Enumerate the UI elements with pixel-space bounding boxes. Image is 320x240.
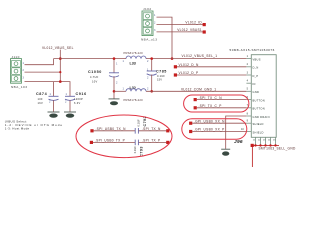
svg-text:ID: ID [253, 82, 256, 86]
net SPI_TX_C_N [194, 96, 247, 101]
J96 shield pin numbers [253, 140, 276, 142]
svg-text:D_P: D_P [253, 74, 259, 78]
svg-text:C916: C916 [76, 92, 87, 96]
J96 pin names [253, 57, 270, 134]
svg-text:SHIELD: SHIELD [253, 130, 264, 134]
wire VBUS rail W1 [54, 58, 247, 60]
J96 shield stubs bottom [256, 137, 276, 145]
wire GND rail W2 [114, 90, 246, 92]
svg-text:1-3: Host Mode: 1-3: Host Mode [5, 127, 30, 131]
wire GND_DRAIN row8 [226, 116, 247, 149]
svg-text:.SPI_USB0_TX_N: .SPI_USB0_TX_N [96, 127, 127, 131]
svg-text:VL012_VBUS_SEL: VL012_VBUS_SEL [42, 46, 74, 50]
capacitor C1050 [88, 59, 119, 99]
svg-text:VL012_D_P: VL012_D_P [179, 71, 199, 75]
inductor L33 [123, 51, 150, 66]
svg-text:C793: C793 [140, 146, 144, 156]
ground C916 [64, 112, 76, 118]
svg-text:.SPI_TX_C_P: .SPI_TX_C_P [199, 104, 222, 108]
svg-text:50M8-AX15-SMT1063076: 50M8-AX15-SMT1063076 [230, 48, 275, 52]
svg-text:BUTTON: BUTTON [253, 98, 265, 102]
svg-text:SMT1063_SELL_GND: SMT1063_SELL_GND [259, 146, 296, 150]
net VL012_D_N [174, 63, 247, 68]
ground GND_DRAIN [221, 149, 230, 156]
svg-text:10V: 10V [92, 79, 98, 83]
svg-text:J110: J110 [12, 55, 20, 59]
svg-text:16V: 16V [38, 101, 44, 105]
junction C785 top [150, 57, 153, 60]
svg-text:.GPI_USB0_XX_P: .GPI_USB0_XX_P [194, 128, 225, 132]
net SPI_TX_C_P [194, 104, 247, 109]
svg-text:.SPI_TX_C_N: .SPI_TX_C_N [199, 96, 223, 100]
wire J102 pin2 net VL012_ID [157, 21, 206, 27]
svg-text:15V: 15V [157, 78, 162, 82]
net VL012_D_P [174, 71, 247, 76]
svg-text:GND: GND [253, 90, 260, 94]
svg-text:VL012_VBUS1: VL012_VBUS1 [177, 28, 202, 32]
wire stub C874 [53, 82, 55, 97]
capacitor C874 [36, 92, 59, 112]
junction J102 pin1 on VBUS rail [171, 57, 174, 60]
svg-text:VL012_ID: VL012_ID [185, 21, 202, 25]
ground C874 [48, 112, 60, 118]
svg-text:VL012_D_N: VL012_D_N [179, 63, 199, 67]
junction pin2/V1 [59, 71, 61, 73]
svg-text:0.1UF: 0.1UF [137, 119, 141, 126]
capacitor C792 [135, 116, 147, 134]
svg-text:D_N: D_N [253, 66, 259, 70]
net GPI_USB0_XX_N [189, 119, 246, 124]
note VBUS select text [5, 120, 63, 131]
svg-text:J96: J96 [234, 139, 243, 145]
svg-text:J102: J102 [143, 7, 152, 11]
connector J96 USB receptacle [230, 48, 277, 145]
annotation ellipse USB0_XX pair [182, 119, 247, 139]
svg-text:C785: C785 [156, 70, 167, 74]
connector J110 [11, 55, 28, 89]
capacitor C916 [65, 92, 87, 112]
svg-text:10F: 10F [38, 97, 43, 101]
wire J102 pin1 to VBUS rail [157, 17, 173, 59]
svg-text:C1050: C1050 [88, 70, 102, 74]
svg-text:VBUS: VBUS [253, 57, 261, 61]
J96 pin numbers [241, 55, 249, 131]
wire J110 pin2 [25, 71, 61, 73]
J96 pin stubs left [246, 59, 251, 132]
svg-text:0.1UF: 0.1UF [133, 146, 137, 153]
svg-text:BUTTON: BUTTON [253, 107, 265, 111]
connector J102 [141, 7, 157, 42]
svg-text:.SPI_TX_N: .SPI_TX_N [142, 127, 161, 131]
svg-text:PRS#178-220: PRS#178-220 [124, 98, 144, 102]
annotation ellipse TX pair [76, 115, 172, 158]
junction VBUS_SEL on rail [59, 57, 62, 60]
svg-text:GND DRAIN: GND DRAIN [253, 115, 270, 119]
ground C1050 [109, 99, 120, 105]
junction C1050 on VBUS rail [113, 57, 116, 60]
junction pin3/V1 [59, 80, 62, 83]
svg-text:.SPI_USB0_TX_P: .SPI_USB0_TX_P [95, 139, 125, 143]
capacitor C793 [133, 140, 143, 157]
annotation ellipse TX_C pair [184, 95, 249, 112]
svg-text:L33: L33 [130, 62, 136, 66]
capacitor C785 [147, 59, 167, 92]
svg-text:.GPI_USB0_XX_N: .GPI_USB0_XX_N [194, 119, 225, 123]
svg-text:SHIELD: SHIELD [253, 122, 264, 126]
svg-text:NBA_103: NBA_103 [11, 85, 27, 89]
svg-text:0.1UF: 0.1UF [157, 74, 165, 78]
svg-text:1200P: 1200P [74, 97, 83, 101]
svg-text:VL012_COM_GND_1: VL012_COM_GND_1 [181, 88, 216, 92]
wire J110 pin3 [25, 82, 71, 97]
wire J102 pin3 net VL012_VBUS1 [157, 28, 206, 33]
wire shield ground bus [251, 144, 279, 147]
net SPI_USB0_TX_P row [90, 139, 170, 144]
svg-text:.SPI_TX_P: .SPI_TX_P [142, 139, 160, 143]
wire J110 pin1 [25, 59, 54, 65]
junction C1050 bottom on W2 [113, 90, 116, 93]
net GPI_USB0_XX_P [189, 128, 246, 133]
svg-text:PRS#178-220: PRS#178-220 [124, 51, 144, 55]
inductor L32 [123, 86, 150, 102]
wire shield to bottom [251, 147, 253, 167]
wire VBUS_SEL vertical [59, 50, 61, 82]
net SPI_USB0_TX_N row [90, 127, 169, 132]
svg-text:VL012_VBUS_SEL_1: VL012_VBUS_SEL_1 [182, 54, 218, 58]
svg-text:C874: C874 [36, 92, 48, 96]
svg-text:4.7UF: 4.7UF [90, 75, 99, 79]
junction C785 bottom [150, 90, 153, 93]
svg-text:6.3V: 6.3V [74, 101, 81, 105]
svg-text:NBA_u13: NBA_u13 [141, 38, 157, 42]
